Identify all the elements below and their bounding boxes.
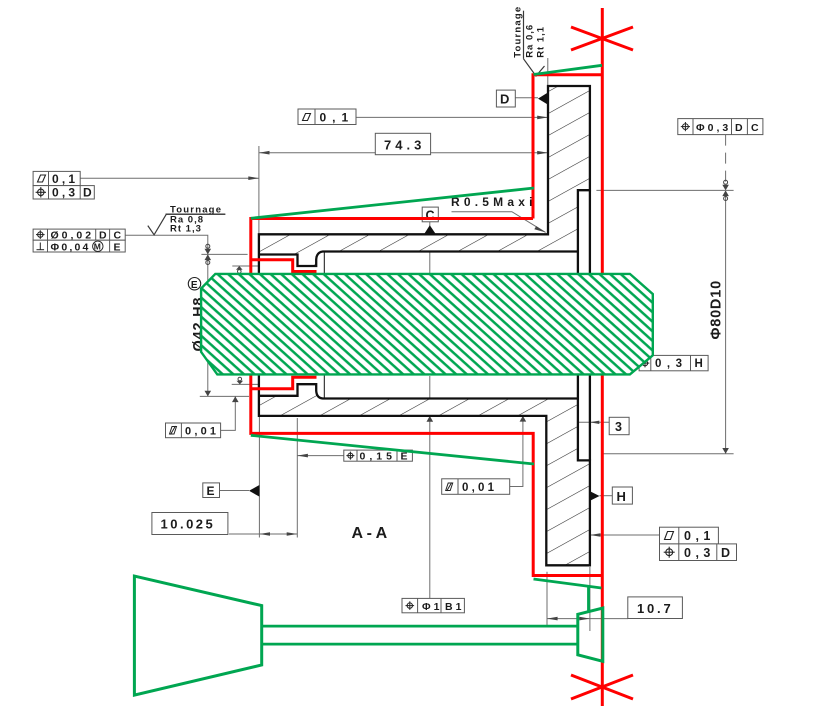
dimension box 74.3 xyxy=(375,133,430,154)
svg-text:D: D xyxy=(500,92,509,107)
rotated Tournage Ra 0,6 Rt 1,1 top-right xyxy=(513,6,547,58)
svg-text:Φ80D10: Φ80D10 xyxy=(709,280,725,339)
svg-text:0,1: 0,1 xyxy=(52,172,78,186)
red groove step lower xyxy=(251,377,317,389)
lower hub+flange hatched section xyxy=(259,384,590,565)
leader from left frame stack xyxy=(80,177,259,179)
upper hub+flange hatched section xyxy=(259,86,590,266)
svg-text:C: C xyxy=(426,208,435,222)
svg-text:H: H xyxy=(617,489,626,504)
dimension box 10.025 xyxy=(152,513,228,535)
svg-text:74.3: 74.3 xyxy=(384,137,425,152)
dimension box 10.7 xyxy=(628,597,683,619)
frame stack top-left: flatness 0,1 / position 0,3 D xyxy=(33,171,94,199)
svg-text:0,01: 0,01 xyxy=(462,482,497,494)
frame top-right: position Ø0,3 D C xyxy=(678,119,763,135)
leader 0,01 frame 1 xyxy=(221,396,236,430)
leader datum D xyxy=(515,97,538,99)
ext line Ø42 bottom xyxy=(200,395,249,397)
dimension line Ø42 xyxy=(207,254,209,396)
green drive center trapezoid xyxy=(134,576,261,695)
datum box D xyxy=(496,90,515,107)
red cross mark top xyxy=(571,27,633,50)
svg-text:A-A: A-A xyxy=(352,525,391,542)
dimension 74.3 line xyxy=(259,152,548,154)
groove width 3 dimension xyxy=(566,421,609,423)
red finished profile top-right xyxy=(533,75,604,219)
svg-text:C: C xyxy=(751,122,759,134)
datum H triangle xyxy=(590,491,600,500)
frame top: flatness 0,1 xyxy=(298,109,356,125)
svg-text:0,1: 0,1 xyxy=(320,110,355,124)
red groove step upper xyxy=(251,260,317,272)
frame 0,15 E xyxy=(344,450,413,461)
ext line left face (up) xyxy=(258,146,260,233)
datum E triangle xyxy=(249,485,259,497)
svg-text:D: D xyxy=(735,122,743,134)
green step bottom-right xyxy=(587,587,590,612)
svg-text:M: M xyxy=(94,242,101,252)
svg-text:Ø0,02: Ø0,02 xyxy=(51,230,95,242)
svg-text:C: C xyxy=(114,230,122,242)
svg-text:10.7: 10.7 xyxy=(637,601,674,616)
svg-text:0,01: 0,01 xyxy=(185,425,219,437)
svg-text:0,3: 0,3 xyxy=(684,546,715,560)
upper rim edge line xyxy=(589,190,591,273)
svg-text:Ra 0,6: Ra 0,6 xyxy=(525,24,536,58)
red cross mark bottom xyxy=(571,675,633,699)
red finished profile upper face xyxy=(251,219,533,274)
ext line step bottom red xyxy=(232,383,258,385)
leader 0,15 E xyxy=(297,455,344,457)
red machining allowance boundary vertical xyxy=(601,8,604,706)
ext lines below part left xyxy=(258,417,260,538)
leader R0.5 xyxy=(452,212,546,233)
svg-text:Φ1: Φ1 xyxy=(422,601,442,613)
upper fillet tangent edge xyxy=(323,253,325,274)
green taper lower xyxy=(251,435,534,464)
svg-text:E: E xyxy=(207,484,215,498)
svg-text:0,3: 0,3 xyxy=(52,186,78,200)
datum D triangle xyxy=(538,92,548,105)
datum box H xyxy=(612,487,632,504)
ext lines Ø80 xyxy=(596,189,733,191)
arrow at bottom of Ø42 dim xyxy=(205,391,212,397)
upper bore land and groove xyxy=(259,252,578,267)
svg-text:10.025: 10.025 xyxy=(161,517,216,532)
dimension box 3 xyxy=(609,417,629,434)
green tailstock blade xyxy=(578,608,603,661)
leader frame2 to Ø42 dimension xyxy=(125,235,208,254)
dimension 10.025 xyxy=(229,533,297,535)
surface symbol on leader xyxy=(148,214,167,235)
lower rim edge line xyxy=(589,375,591,460)
leader datum E xyxy=(220,490,250,492)
frame Ø0,3 D C dimension line Ø80 xyxy=(725,135,727,188)
leader flatness 0,1 top xyxy=(356,116,548,118)
svg-text:H: H xyxy=(695,358,703,370)
ext line Ø42 top xyxy=(201,253,247,255)
lower fillet tangent edge xyxy=(323,375,325,398)
frame 0,3 H (partially under green shaft) xyxy=(639,355,708,370)
leader 0,01 frame 2 xyxy=(510,416,523,487)
red finished profile lower face xyxy=(251,375,604,575)
lower part outline xyxy=(259,375,590,565)
leader right frame stack xyxy=(590,534,660,536)
green taper upper xyxy=(251,188,534,218)
svg-text:0,3: 0,3 xyxy=(655,358,688,370)
upper part outline xyxy=(259,86,590,274)
svg-text:Φ0,3: Φ0,3 xyxy=(696,122,731,134)
frame stack mid-left: position Ø0,02 D C / perpendicularity Ø0,04 M E xyxy=(33,229,125,252)
lower bore land and groove xyxy=(259,384,578,398)
green surface top-right xyxy=(534,65,603,74)
green mandrel shaft hatched xyxy=(201,274,653,375)
dimension 10.7 xyxy=(546,572,548,626)
leader datum C line down to frame B1 xyxy=(429,222,431,273)
frame 0,01 #1 xyxy=(166,423,221,438)
datum box E xyxy=(203,483,220,498)
datum C triangle xyxy=(424,225,436,234)
svg-text:Rt 1,1: Rt 1,1 xyxy=(536,26,547,58)
datum box C xyxy=(422,207,438,222)
green profile bottom-right slant xyxy=(534,579,602,588)
hourglass at top of Ø42 dim xyxy=(206,244,210,248)
svg-text:D: D xyxy=(83,186,92,200)
svg-text:3: 3 xyxy=(615,420,622,434)
frame 0,01 #2 xyxy=(442,479,510,495)
ext line groove top face xyxy=(232,265,258,267)
svg-text:Tournage: Tournage xyxy=(513,6,524,58)
svg-text:0,1: 0,1 xyxy=(684,529,715,543)
svg-text:B1: B1 xyxy=(445,601,464,613)
green stem lines xyxy=(262,625,578,628)
svg-text:Rt 1,3: Rt 1,3 xyxy=(170,224,202,235)
svg-text:0,15: 0,15 xyxy=(360,451,396,463)
leader datum H xyxy=(600,495,613,497)
ext line flange left face (up) xyxy=(547,58,549,85)
svg-text:D: D xyxy=(721,546,730,560)
frame stack bottom-right: flatness 0,1 / position 0,3 D xyxy=(660,527,737,560)
svg-text:Φ0,04: Φ0,04 xyxy=(51,241,91,253)
svg-text:E: E xyxy=(191,280,198,291)
svg-text:D: D xyxy=(99,230,107,242)
hourglass on C line at bottom face xyxy=(427,410,434,416)
frame Ø1 B1 xyxy=(402,598,464,612)
svg-text:E: E xyxy=(114,241,121,253)
